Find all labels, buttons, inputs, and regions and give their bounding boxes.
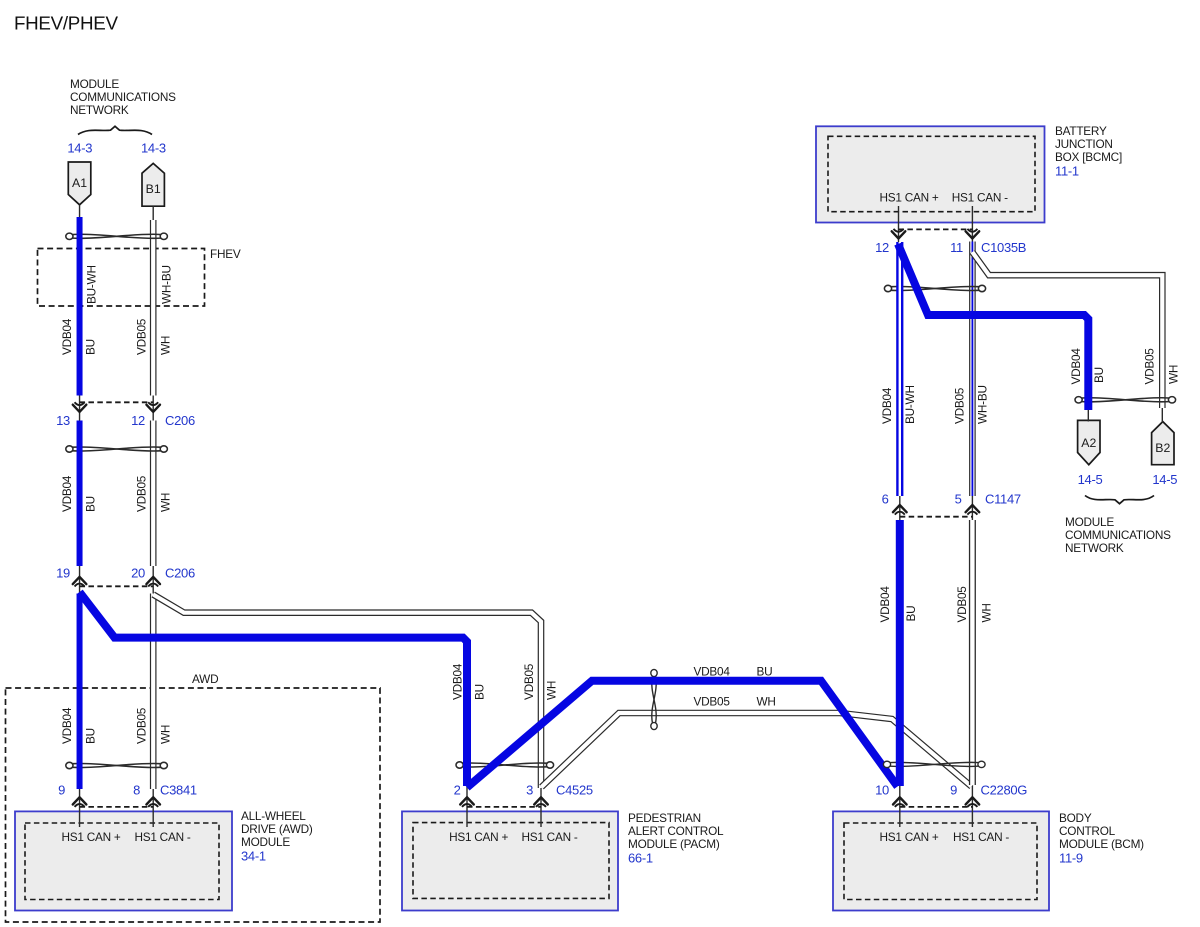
twisted-pair symbol mid run	[651, 669, 657, 729]
wire VDB05 WH PACM pin3 to BCM pin9	[542, 713, 972, 787]
connector A2	[1078, 420, 1100, 464]
connector dashed line C206 lower	[80, 585, 154, 587]
svg-text:FHEV: FHEV	[210, 247, 241, 261]
wire VDB05 WH branch pin11 to B2	[972, 252, 1162, 408]
brace top-left	[78, 126, 152, 134]
svg-text:HS1 CAN +: HS1 CAN +	[449, 830, 508, 844]
svg-text:14-5: 14-5	[1078, 472, 1103, 487]
svg-text:HS1 CAN -: HS1 CAN -	[952, 191, 1008, 205]
svg-text:B2: B2	[1155, 441, 1170, 455]
connector dashed line C2280G	[900, 806, 973, 808]
svg-text:MODULE: MODULE	[241, 835, 290, 849]
svg-text:WH: WH	[159, 493, 173, 512]
svg-text:WH-BU: WH-BU	[160, 265, 174, 304]
connector dashed line C1147	[900, 516, 973, 518]
svg-text:HS1 CAN +: HS1 CAN +	[879, 830, 938, 844]
twisted-pair symbol BCM lines	[890, 762, 978, 766]
pin arrow C206 pin19	[73, 577, 87, 587]
wire VDB04 BU-WH battery pin12 to C1147 pin6	[896, 242, 903, 496]
wire VDB05 WH C206 pin13 to pin20	[150, 421, 157, 567]
svg-text:8: 8	[133, 783, 140, 798]
wire VDB04 BU C206 pin13 to pin19	[77, 421, 83, 567]
wire VDB05 WH branch pin20 to PACM pin3	[153, 595, 541, 789]
pin arrow PACM pin3	[534, 797, 548, 807]
wire stub below B1	[152, 206, 154, 220]
battery junction box inner dashed box	[828, 136, 1035, 211]
svg-text:34-1: 34-1	[241, 849, 266, 864]
connector dashed line C206 upper	[80, 401, 154, 403]
svg-text:9: 9	[58, 783, 65, 798]
svg-text:C4525: C4525	[556, 783, 593, 798]
connector B2	[1152, 422, 1174, 465]
svg-text:MODULE: MODULE	[70, 77, 119, 91]
svg-text:2: 2	[454, 783, 461, 798]
svg-text:AWD: AWD	[192, 672, 218, 686]
svg-text:JUNCTION: JUNCTION	[1055, 137, 1113, 151]
svg-text:VDB05: VDB05	[135, 475, 149, 512]
svg-text:20: 20	[131, 566, 145, 581]
svg-text:VDB04: VDB04	[451, 663, 465, 700]
svg-text:BU: BU	[473, 684, 487, 700]
svg-text:C206: C206	[165, 566, 195, 581]
svg-text:WH: WH	[159, 725, 173, 744]
wire stub PACM pin3	[540, 786, 542, 827]
svg-text:11-1: 11-1	[1055, 164, 1079, 179]
svg-text:BU: BU	[1092, 367, 1106, 383]
wire VDB04 BU branch pin12 to A2	[898, 244, 1088, 410]
wire stub C206 pin12 gap	[152, 395, 154, 421]
svg-text:BU-WH: BU-WH	[903, 385, 917, 424]
pin arrow battery pin11	[966, 229, 980, 239]
svg-text:12: 12	[131, 413, 145, 428]
svg-text:11-9: 11-9	[1059, 851, 1083, 866]
svg-text:VDB04: VDB04	[878, 586, 892, 623]
wire stub BCM pin9	[971, 784, 973, 827]
svg-text:VDB05: VDB05	[135, 707, 149, 744]
svg-text:VDB04: VDB04	[60, 707, 74, 744]
svg-text:BU: BU	[84, 728, 98, 744]
pin arrow C206 pin13	[73, 402, 87, 412]
svg-text:WH: WH	[980, 603, 994, 622]
svg-text:C3841: C3841	[160, 783, 197, 798]
PACM module inner dashed box	[413, 823, 609, 899]
pin arrow BCM pin10	[893, 797, 907, 807]
wire stub C1147 pin5 gap	[971, 495, 973, 521]
svg-text:VDB04: VDB04	[880, 387, 894, 424]
svg-text:WH: WH	[159, 336, 173, 355]
svg-text:6: 6	[882, 492, 889, 507]
svg-text:A1: A1	[72, 176, 87, 190]
svg-text:PEDESTRIAN: PEDESTRIAN	[628, 811, 701, 825]
twisted-pair symbol battery	[884, 285, 985, 291]
dashed box FHEV option	[38, 249, 205, 307]
svg-text:BATTERY: BATTERY	[1055, 124, 1107, 138]
svg-text:NETWORK: NETWORK	[70, 103, 129, 117]
svg-text:HS1 CAN -: HS1 CAN -	[134, 830, 190, 844]
svg-text:5: 5	[955, 492, 962, 507]
svg-text:COMMUNICATIONS: COMMUNICATIONS	[1065, 528, 1171, 542]
svg-text:VDB05: VDB05	[135, 318, 149, 355]
svg-text:WH: WH	[757, 695, 776, 709]
svg-text:14-5: 14-5	[1152, 472, 1177, 487]
connector dashed line C4525	[467, 806, 541, 808]
svg-text:10: 10	[875, 783, 889, 798]
svg-text:HS1 CAN +: HS1 CAN +	[879, 191, 938, 205]
svg-text:14-3: 14-3	[141, 141, 166, 156]
wire stub AWD pin8	[152, 788, 154, 827]
AWD module inner dashed box	[25, 823, 219, 900]
pin arrow AWD pin9	[73, 797, 87, 807]
wire VDB05 WH from B1 to C206 pin12	[150, 220, 157, 396]
pin arrow PACM pin2	[460, 797, 474, 807]
svg-text:NETWORK: NETWORK	[1065, 541, 1124, 555]
svg-text:ALERT CONTROL: ALERT CONTROL	[628, 824, 724, 838]
svg-text:BU: BU	[757, 665, 773, 679]
svg-text:C1147: C1147	[985, 492, 1021, 507]
wire stub above B2	[1161, 407, 1163, 423]
wire stub battery pin12	[898, 206, 900, 243]
svg-text:B1: B1	[146, 182, 161, 196]
svg-text:12: 12	[875, 240, 889, 255]
wire stub C206 pin20 gap	[152, 565, 154, 594]
battery junction box outer box	[816, 126, 1045, 222]
svg-text:WH-BU: WH-BU	[976, 385, 990, 424]
pin arrow battery pin12	[892, 229, 906, 239]
pin arrow C1147 pin6	[893, 505, 907, 515]
wire VDB04 BU branch pin19 to PACM pin2	[80, 592, 467, 786]
svg-text:BU: BU	[904, 606, 918, 622]
svg-text:HS1 CAN -: HS1 CAN -	[521, 830, 577, 844]
svg-text:VDB05: VDB05	[1143, 348, 1157, 385]
svg-text:66-1: 66-1	[628, 851, 653, 866]
svg-text:VDB05: VDB05	[694, 695, 731, 709]
brace bottom-right	[1085, 496, 1154, 504]
pin arrow AWD pin8	[146, 797, 160, 807]
svg-text:VDB05: VDB05	[953, 387, 967, 424]
BCM module inner dashed box	[844, 823, 1037, 900]
svg-text:WH: WH	[1167, 365, 1181, 384]
svg-text:BODY: BODY	[1059, 811, 1092, 825]
svg-text:BU-WH: BU-WH	[85, 265, 99, 304]
svg-text:19: 19	[56, 566, 70, 581]
wire stub C1147 pin6 gap	[899, 495, 901, 521]
svg-text:VDB05: VDB05	[522, 663, 536, 700]
svg-text:3: 3	[526, 783, 533, 798]
svg-text:C206: C206	[165, 413, 195, 428]
pin arrow BCM pin9	[966, 797, 980, 807]
twisted-pair symbol A2 B2	[1075, 397, 1176, 403]
wire stub PACM pin2	[466, 786, 468, 827]
pin arrow C206 pin20	[146, 577, 160, 587]
pin arrow C206 pin12	[146, 402, 160, 412]
svg-text:11: 11	[950, 240, 963, 255]
wire VDB05 WH C1147 pin5 to BCM pin9	[969, 520, 976, 785]
svg-text:BU: BU	[84, 496, 98, 512]
PACM module outer box	[402, 811, 618, 910]
svg-text:C1035B: C1035B	[981, 240, 1026, 255]
svg-text:VDB04: VDB04	[1069, 348, 1083, 385]
svg-text:14-3: 14-3	[67, 141, 92, 156]
BCM module outer box	[833, 811, 1049, 910]
AWD module outer box	[15, 811, 232, 910]
wire stub BCM pin10	[899, 786, 901, 827]
svg-text:C2280G: C2280G	[981, 783, 1028, 798]
dashed box AWD option	[6, 688, 381, 922]
wire stub below A1	[79, 205, 81, 218]
svg-text:MODULE (PACM): MODULE (PACM)	[628, 837, 720, 851]
wire VDB04 BU from A1 to C206 pin13	[77, 217, 83, 396]
wire stub C206 pin13 gap	[79, 395, 81, 421]
svg-text:BOX [BCMC]: BOX [BCMC]	[1055, 150, 1122, 164]
wire VDB04 BU C206 pin19 down to AWD pin9	[77, 594, 83, 790]
svg-text:WH: WH	[545, 681, 559, 700]
twisted-pair symbol AWD	[66, 762, 168, 768]
connector B1	[142, 163, 164, 206]
connector A1	[68, 162, 91, 205]
svg-text:13: 13	[56, 413, 70, 428]
svg-text:FHEV/PHEV: FHEV/PHEV	[14, 13, 119, 34]
pin arrow C1147 pin5	[966, 505, 980, 515]
wire VDB05 WH-BU battery pin11 to C1147 pin5	[969, 242, 976, 497]
svg-text:CONTROL: CONTROL	[1059, 824, 1116, 838]
twisted-pair symbol mid left	[66, 446, 168, 452]
connector dashed line C3841	[80, 806, 154, 808]
svg-text:A2: A2	[1081, 436, 1096, 450]
wire VDB04 BU C1147 pin6 to BCM pin10	[896, 520, 904, 786]
svg-text:HS1 CAN -: HS1 CAN -	[953, 830, 1009, 844]
svg-text:VDB05: VDB05	[955, 586, 969, 623]
svg-text:VDB04: VDB04	[60, 318, 74, 355]
twisted-pair symbol top left	[66, 233, 168, 239]
twisted-pair loops BCM loops	[883, 761, 985, 767]
svg-text:DRIVE (AWD): DRIVE (AWD)	[241, 822, 313, 836]
connector dashed line C1035B	[899, 228, 973, 230]
svg-text:COMMUNICATIONS: COMMUNICATIONS	[70, 90, 176, 104]
wire stub C206 pin19 gap	[79, 565, 81, 594]
svg-text:VDB04: VDB04	[60, 475, 74, 512]
twisted-pair symbol PACM	[456, 762, 554, 768]
wire VDB05 WH C206 pin20 down to AWD pin8	[150, 594, 157, 790]
wire stub above A2	[1087, 410, 1089, 422]
svg-text:9: 9	[950, 783, 957, 798]
svg-text:MODULE: MODULE	[1065, 515, 1114, 529]
svg-text:ALL-WHEEL: ALL-WHEEL	[241, 809, 306, 823]
wire stub battery pin11	[971, 206, 973, 243]
wire VDB04 BU PACM pin2 to BCM pin10	[467, 681, 898, 788]
svg-text:MODULE (BCM): MODULE (BCM)	[1059, 837, 1144, 851]
svg-text:HS1 CAN +: HS1 CAN +	[61, 830, 120, 844]
wire stub AWD pin9	[79, 788, 81, 827]
svg-text:BU: BU	[84, 339, 98, 355]
svg-text:VDB04: VDB04	[694, 665, 731, 679]
